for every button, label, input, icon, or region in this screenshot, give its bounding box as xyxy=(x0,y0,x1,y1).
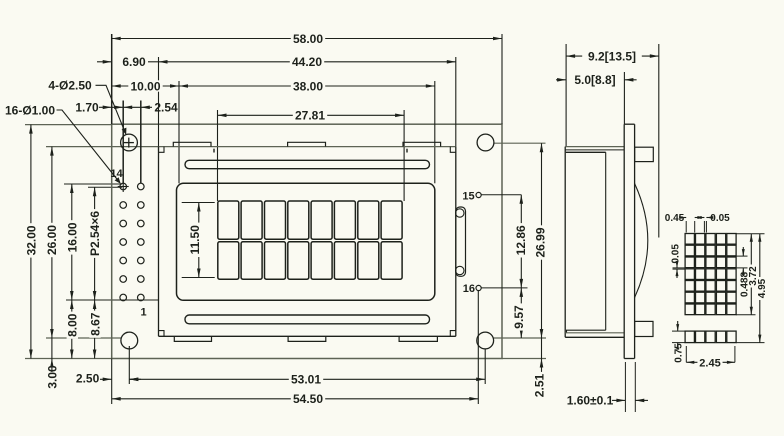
dimension 5.0[8.8] xyxy=(556,79,566,81)
wire side body left extension xyxy=(565,44,567,147)
svg-text:38.00: 38.00 xyxy=(293,79,323,93)
wire top-right hole center extension line xyxy=(494,142,546,144)
dimension 26.00 xyxy=(51,147,53,338)
character cells row 1 xyxy=(218,201,239,239)
wire pin16 extension line xyxy=(481,287,527,289)
wire pin16 column extension down xyxy=(477,291,479,404)
svg-text:0.05: 0.05 xyxy=(671,244,682,264)
svg-text:58.00: 58.00 xyxy=(293,32,323,46)
svg-text:9.2[13.5]: 9.2[13.5] xyxy=(588,49,636,63)
wire pin15 extension line xyxy=(481,194,521,196)
bezel top tab 2 xyxy=(288,142,326,146)
side view body bottom inner line xyxy=(565,332,624,334)
dimension 58.00 xyxy=(112,38,502,40)
svg-text:0.05: 0.05 xyxy=(710,213,730,224)
svg-text:16.00: 16.00 xyxy=(66,222,80,252)
side view bezel inner lip xyxy=(565,149,624,151)
svg-text:9.57: 9.57 xyxy=(512,305,526,329)
svg-text:0.45: 0.45 xyxy=(665,213,685,224)
wire bottom-left hole extension down xyxy=(128,346,130,384)
svg-text:1.60±0.1: 1.60±0.1 xyxy=(567,394,614,408)
top slot bar xyxy=(185,160,430,168)
side view glass bottom edge xyxy=(567,330,606,333)
svg-text:8.00: 8.00 xyxy=(66,313,80,337)
svg-text:3.00: 3.00 xyxy=(46,365,60,389)
bottom slot bar xyxy=(185,315,430,324)
dimension 16.00 xyxy=(71,184,73,300)
wire PCB bottom extension line left xyxy=(25,358,112,360)
dimension 9.57 xyxy=(520,288,522,338)
bezel seam mark left xyxy=(213,149,215,153)
dimension 11.50 xyxy=(182,202,215,204)
bezel right tab hole upper xyxy=(456,209,464,217)
svg-text:54.50: 54.50 xyxy=(293,392,323,406)
bezel top tab 3 xyxy=(403,142,441,146)
wire matrix top right extension xyxy=(736,233,765,235)
dimension 0.75 cursor row xyxy=(672,330,685,332)
dimension 3.00 xyxy=(51,338,53,372)
wire matrix block bottom extension xyxy=(736,314,756,316)
dimension 44.20 xyxy=(159,61,456,63)
bezel top tab 1 xyxy=(173,142,211,146)
wire char area left extension xyxy=(217,110,219,201)
dimension 0.05 dot gap horizontal xyxy=(703,221,705,233)
pin 15 hole xyxy=(476,192,481,197)
wire pin14 row extension line xyxy=(88,186,122,188)
mounting hole top-right xyxy=(477,134,494,151)
wire char area right extension xyxy=(403,110,405,201)
wire bezel right extension xyxy=(455,57,457,147)
wire bottom-right hole center extension line xyxy=(494,337,546,339)
bezel right side tab xyxy=(456,207,466,276)
wire PCB left extension down xyxy=(111,359,113,405)
dimension 38.00 xyxy=(179,85,435,87)
bezel right tab hole lower xyxy=(456,266,464,274)
svg-text:2.51: 2.51 xyxy=(532,373,546,397)
dimension P2.54x6 xyxy=(94,187,96,300)
dimension 54.50 xyxy=(112,398,479,400)
dimension 8.67 xyxy=(94,300,96,359)
side view bottom mounting tab xyxy=(635,321,653,336)
svg-text:11.50: 11.50 xyxy=(188,225,202,255)
wire pin column 1 extension xyxy=(122,101,124,184)
svg-text:P2.54×6: P2.54×6 xyxy=(88,211,102,256)
mounting hole bottom-left xyxy=(121,332,138,349)
side view pin row arc xyxy=(635,184,648,298)
svg-text:32.00: 32.00 xyxy=(25,225,39,255)
bezel bottom tab 3 xyxy=(399,336,437,341)
pin 16 hole xyxy=(476,285,481,290)
svg-text:26.00: 26.00 xyxy=(45,225,59,255)
dimension 10.00 xyxy=(112,85,179,87)
wire bottom hole center left extension line xyxy=(46,337,121,339)
dot matrix 5x7 grid xyxy=(685,234,694,245)
dimension 8.00 xyxy=(71,300,73,359)
svg-text:16: 16 xyxy=(463,283,475,295)
wire matrix cursor bottom extension xyxy=(736,342,765,344)
svg-text:10.00: 10.00 xyxy=(130,79,160,93)
wire bezel top left extension line xyxy=(46,146,159,148)
dimension 3.72 xyxy=(750,234,752,315)
character cells row 2 xyxy=(218,242,239,280)
bezel top edge xyxy=(159,146,456,148)
mounting hole top-left with center mark xyxy=(121,134,138,151)
bezel corner notch top-left xyxy=(159,147,165,153)
bezel bottom tab 2 xyxy=(288,336,326,341)
side view body outline xyxy=(565,146,624,148)
svg-text:1.70: 1.70 xyxy=(75,101,99,115)
wire glass right extension xyxy=(434,81,436,183)
svg-text:2.45: 2.45 xyxy=(699,357,720,369)
side view PCB xyxy=(623,124,625,358)
wire side PCB front extension xyxy=(623,72,625,124)
wire PCB bottom extension line right xyxy=(502,358,546,360)
svg-text:44.20: 44.20 xyxy=(292,55,322,69)
wire PCB right edge extension up xyxy=(501,34,503,124)
side view glass back edge xyxy=(605,152,607,330)
wire side tab right extension xyxy=(658,44,660,238)
wire bezel left extension xyxy=(158,57,160,151)
wire bottom-right hole extension down xyxy=(484,349,486,384)
dimension 2.51 xyxy=(541,338,543,399)
wire window top left extension line xyxy=(64,183,122,185)
side view top mounting tab xyxy=(635,147,654,161)
dimension 9.2[13.5] xyxy=(566,55,659,57)
bezel corner notch bottom-left xyxy=(159,331,165,337)
svg-text:4-Ø2.50: 4-Ø2.50 xyxy=(48,79,92,93)
svg-text:2.50: 2.50 xyxy=(76,371,100,385)
dimension 26.99 xyxy=(541,143,543,338)
svg-text:53.01: 53.01 xyxy=(291,373,321,387)
svg-text:26.99: 26.99 xyxy=(534,227,548,257)
bezel corner notch bottom-right xyxy=(450,331,456,337)
bezel bottom tab 1 xyxy=(174,336,211,341)
svg-text:5.0[8.8]: 5.0[8.8] xyxy=(574,73,615,87)
pin holes 2x7 grid xyxy=(138,183,145,190)
svg-text:27.81: 27.81 xyxy=(295,109,325,123)
wire PCB left edge extension up xyxy=(111,34,113,124)
wire 1.60 extension left xyxy=(624,362,626,412)
svg-text:16-Ø1.00: 16-Ø1.00 xyxy=(5,103,55,117)
svg-text:14: 14 xyxy=(110,168,123,180)
pin 14 hole with cross xyxy=(120,183,127,190)
wire glass left extension xyxy=(178,81,180,183)
svg-text:2.54: 2.54 xyxy=(154,101,178,115)
svg-text:4.95: 4.95 xyxy=(757,278,768,298)
dimension 6.90 xyxy=(97,61,112,63)
bezel seam mark right xyxy=(406,149,408,153)
bezel bottom edge xyxy=(159,335,456,337)
display window xyxy=(177,183,435,300)
PCB board outline xyxy=(112,124,502,358)
bezel corner notch top-right xyxy=(450,147,456,153)
dimension 32.00 xyxy=(30,125,32,359)
svg-text:0.75: 0.75 xyxy=(674,343,685,363)
dimension 12.86 xyxy=(520,195,522,288)
mounting hole bottom-right xyxy=(477,332,494,349)
wire pin column 2 extension xyxy=(140,101,142,184)
wire PCB top extension line xyxy=(25,124,112,126)
dot matrix cursor row 5x1 xyxy=(685,331,694,343)
dimension 27.81 xyxy=(218,114,405,116)
svg-text:15: 15 xyxy=(462,190,474,202)
svg-text:8.67: 8.67 xyxy=(88,312,102,336)
bezel right edge xyxy=(455,147,457,337)
svg-text:1: 1 xyxy=(140,306,146,318)
wire 1.60 extension right xyxy=(634,362,636,412)
dimension 2.45 xyxy=(685,346,687,362)
wire pin1 row extension line xyxy=(66,299,159,301)
svg-text:6.90: 6.90 xyxy=(122,55,146,69)
svg-text:12.86: 12.86 xyxy=(514,225,528,255)
dimension 53.01 xyxy=(129,378,485,380)
dimension 4.95 xyxy=(759,234,761,343)
dimension 0.488 row pitch xyxy=(736,255,748,257)
bezel left edge xyxy=(158,147,160,337)
